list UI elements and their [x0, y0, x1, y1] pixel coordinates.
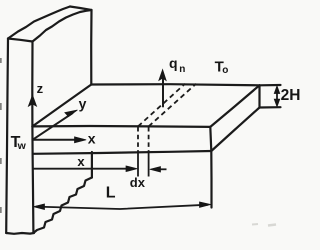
svg-text:x: x	[88, 131, 96, 147]
svg-text:o: o	[222, 65, 228, 76]
wall top-left thickness edge	[8, 39, 33, 42]
L right arrowhead	[200, 202, 211, 208]
y axis line	[33, 113, 73, 140]
svg-text:2H: 2H	[281, 87, 301, 104]
fin front-right vertical edge + L extension line	[210, 127, 211, 208]
wall top face back edge (jagged)	[8, 7, 70, 39]
fin top face front edge	[32, 125, 210, 128]
z axis arrowhead	[28, 95, 36, 106]
q_n arrowhead	[159, 70, 166, 81]
wall back-right vertical edge	[90, 10, 93, 85]
x axis line	[33, 139, 80, 141]
x dimension arrowhead (points right at dx slice)	[126, 166, 137, 172]
fin end face back vertical edge	[258, 85, 260, 107]
svg-text:z: z	[37, 81, 44, 96]
dx right arrowhead (points left)	[150, 167, 161, 172]
wall left edge	[6, 39, 8, 234]
svg-text:q: q	[169, 55, 178, 71]
L dimension line	[36, 205, 208, 209]
svg-text:n: n	[179, 64, 185, 75]
dashed slice line right (on fin top face)	[149, 84, 196, 127]
fin front face bottom edge	[33, 151, 212, 154]
x dimension line	[34, 168, 129, 170]
dx extension line left	[137, 152, 139, 177]
dx right arrow tail	[159, 168, 167, 170]
dashed slice left hidden edge on front face	[137, 127, 139, 152]
2H bottom tick	[260, 106, 281, 109]
fin top face right edge	[210, 85, 259, 127]
x axis arrowhead	[75, 137, 87, 143]
svg-text:L: L	[106, 185, 116, 202]
wall back edge below fin	[91, 152, 93, 178]
wall bottom edge	[6, 232, 34, 235]
wall front-right vertical edge (with z-axis and fin edge colinear)	[32, 42, 33, 234]
y axis arrowhead	[65, 110, 78, 117]
dashed slice right hidden edge on front face	[148, 127, 150, 152]
q_n heat flux arrow line	[162, 78, 164, 107]
2H dimension double arrow	[276, 89, 278, 104]
wall top face right thickness edge	[70, 7, 92, 11]
fin: wall-fin junction edge	[32, 85, 91, 127]
svg-text:y: y	[79, 96, 87, 112]
fin end face bottom edge	[211, 108, 259, 152]
wall torn break edge (stair-step jagged)	[34, 178, 92, 233]
fin top face back edge + 2H top tick	[91, 84, 280, 85]
svg-text:x: x	[77, 154, 85, 169]
dashed slice line left (on fin top face)	[138, 84, 185, 127]
dx extension line right	[148, 152, 150, 177]
2H bottom arrowhead	[274, 99, 280, 107]
2H top arrowhead	[274, 86, 280, 94]
L left arrowhead	[33, 204, 44, 210]
wall top face front edge (jagged)	[33, 10, 92, 42]
svg-text:dx: dx	[130, 175, 146, 190]
faint smudge bottom right	[252, 223, 258, 226]
svg-text:w: w	[17, 140, 27, 152]
left border scan ticks	[0, 58, 2, 213]
